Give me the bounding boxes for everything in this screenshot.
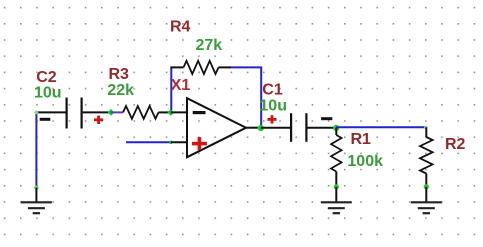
- ground GND1 stem: [35, 188, 37, 202]
- svg-text:C2: C2: [36, 69, 57, 86]
- wire feedback top right lead: [219, 66, 232, 68]
- node R1 bottom: [334, 184, 339, 189]
- wire blue node to R2: [336, 126, 426, 128]
- wire C1 to node R1: [307, 127, 336, 129]
- wire blue vertical to ground: [35, 112, 37, 188]
- svg-text:R1: R1: [351, 131, 372, 148]
- wire C2 left to ground corner: [36, 111, 65, 113]
- svg-text:10u: 10u: [259, 97, 287, 114]
- resistor R3: [111, 106, 171, 119]
- ground GND3 stem: [425, 187, 427, 202]
- ground GND2 stem: [335, 187, 337, 202]
- capacitor C2: [67, 98, 82, 129]
- node above left ground: [34, 186, 38, 190]
- op-amp plus symbol: [192, 137, 207, 150]
- svg-text:R4: R4: [170, 19, 191, 36]
- resistor R4: [184, 61, 219, 74]
- wire feedback top left lead: [170, 66, 183, 68]
- ground GND1: [21, 202, 52, 213]
- ground GND3: [411, 202, 442, 213]
- wire blue feedback to output corner: [231, 67, 261, 127]
- ground GND2: [321, 202, 352, 213]
- wire node to C1: [261, 127, 290, 129]
- node output: [258, 125, 264, 131]
- wire blue feedback vertical left: [170, 67, 172, 110]
- svg-text:22k: 22k: [107, 82, 134, 99]
- svg-text:100k: 100k: [347, 153, 383, 170]
- node corner R2 top: [424, 126, 427, 129]
- C2 minus mark: [40, 118, 51, 121]
- capacitor C1: [291, 113, 306, 142]
- node corner C2/gnd: [34, 110, 39, 115]
- node between C2 and R3: [108, 109, 115, 116]
- resistor R1: [331, 128, 342, 187]
- wire op-amp output to node: [246, 127, 261, 129]
- wire C2 to node1: [83, 111, 111, 113]
- op-amp X1 triangle: [187, 98, 246, 157]
- node R1 top: [333, 125, 339, 131]
- wire to op-amp plus input: [171, 141, 187, 143]
- wire node to op-amp minus input: [171, 111, 187, 113]
- resistor R2: [420, 127, 433, 187]
- C1 minus mark: [321, 117, 332, 120]
- node R2 bottom: [424, 184, 429, 189]
- svg-text:X1: X1: [171, 77, 191, 94]
- node on plus input wire: [169, 141, 172, 144]
- node X1 inverting input: [167, 109, 174, 116]
- op-amp minus symbol: [193, 111, 206, 114]
- wire blue noninverting input: [126, 141, 171, 143]
- C1 plus mark: [268, 115, 277, 123]
- C2 plus mark: [94, 116, 103, 124]
- svg-text:R3: R3: [109, 66, 130, 83]
- svg-text:C1: C1: [262, 81, 283, 98]
- svg-text:10u: 10u: [34, 84, 62, 101]
- svg-text:27k: 27k: [196, 37, 223, 54]
- svg-text:R2: R2: [445, 136, 466, 153]
